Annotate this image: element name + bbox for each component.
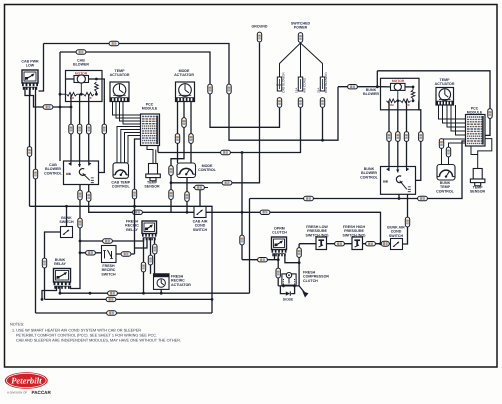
junction motor right xyxy=(95,78,98,81)
wire bunk power loop xyxy=(377,71,490,136)
rotary switch CAB BLOWER CONTROL xyxy=(64,161,99,185)
module PCC bunk xyxy=(466,115,486,147)
wire control pin to bunk relay xyxy=(71,185,81,289)
wire mode act pin1 to control xyxy=(177,102,179,164)
connector bunk temp a xyxy=(439,139,443,149)
connector after high press xyxy=(366,242,376,246)
connector on wire F mid xyxy=(133,210,143,214)
wire blower M2 to control xyxy=(88,94,90,161)
junction F3 to bus A xyxy=(321,139,324,142)
junction wire F bunk AC xyxy=(379,242,382,245)
FR relay pin wires xyxy=(143,238,145,293)
bunk blower out wires xyxy=(388,101,390,167)
wire bunk to FR relay coil xyxy=(80,238,144,241)
junction blower feed xyxy=(59,106,62,109)
svg-text:CAB TEMPCONTROL: CAB TEMPCONTROL xyxy=(111,181,130,189)
wire FR switch right xyxy=(116,253,135,255)
wire blower M1 to control xyxy=(79,94,81,161)
wire blower feed vertical xyxy=(59,52,61,161)
wire G bunk control xyxy=(250,141,466,199)
wire motor left feed xyxy=(66,78,74,80)
wire power bus B xyxy=(60,52,280,127)
wire fuse3 to bunk blower xyxy=(338,86,381,88)
connector bunk blower feed xyxy=(348,85,358,89)
fuse F2 air cond xyxy=(298,77,302,91)
actuator FRESH RECIRC xyxy=(154,274,170,290)
wire clutch bottom xyxy=(278,285,299,287)
connector on control out 1 xyxy=(78,190,82,200)
switch FRESH HIGH PRESSURE xyxy=(352,237,363,250)
svg-text:PACCAR: PACCAR xyxy=(32,390,52,395)
svg-text:CABBLOWER: CABBLOWER xyxy=(73,59,89,67)
wire blower LO to control xyxy=(70,94,72,161)
svg-text:CAB PWRLOW: CAB PWRLOW xyxy=(21,60,39,68)
wire relay pin to AC line xyxy=(29,87,31,206)
connector mode3 xyxy=(189,134,193,144)
actuator cab mode xyxy=(176,82,195,102)
wire to low press switch xyxy=(299,243,316,245)
connector switched power xyxy=(298,33,302,43)
svg-text:PCCMODULE: PCCMODULE xyxy=(142,103,158,111)
dial BUNK TEMP CONTROL xyxy=(437,165,455,181)
wire C power to DPRM xyxy=(241,153,243,260)
bunk blower motor symbol M2 xyxy=(391,83,406,90)
wire PCC to fresh-recirc line xyxy=(135,139,141,254)
relay DPRM CLUTCH xyxy=(272,237,287,250)
connector on power bus A xyxy=(109,41,119,45)
wire FR actuator bottom xyxy=(160,289,162,293)
svg-text:CAB AIRCONDSWITCH: CAB AIRCONDSWITCH xyxy=(193,220,208,232)
rotary switch BUNK BLOWER CONTROL xyxy=(381,167,416,195)
connector ground xyxy=(257,32,261,42)
svg-text:DPRMCLUTCH: DPRMCLUTCH xyxy=(272,227,287,235)
svg-text:DIODE: DIODE xyxy=(283,298,294,302)
actuator cab temp xyxy=(110,82,129,102)
fan-out wires to fuses xyxy=(280,43,301,77)
junction at LM resistor wire xyxy=(70,106,73,109)
svg-text:TEMPACTUATOR: TEMPACTUATOR xyxy=(435,78,455,86)
wire BBC to bunk AC switch xyxy=(403,194,408,244)
Peterbilt logo xyxy=(5,372,48,389)
wire AC switch to pill xyxy=(199,188,201,207)
switch CAB AIR COND xyxy=(194,207,206,218)
connector bunk blower 1 xyxy=(387,132,391,142)
svg-text:BUNKRELAY: BUNKRELAY xyxy=(54,258,66,266)
junction Y299 loop xyxy=(211,298,214,301)
relay FRESH RECIRC xyxy=(142,221,157,234)
PCC bunk pins to temp control xyxy=(442,139,466,165)
svg-text:FRESHRECIRCRELAY: FRESHRECIRCRELAY xyxy=(125,220,139,232)
connector bunk AC left xyxy=(381,241,389,246)
connector bunk switch wire xyxy=(42,258,46,268)
temp actuator pin wires to PCC xyxy=(113,102,141,116)
diode D1 xyxy=(286,291,291,295)
connector on power bus B xyxy=(76,50,86,54)
connector AC switch xyxy=(195,185,205,189)
svg-text:1M: 1M xyxy=(389,103,394,107)
connector under fuse F1 xyxy=(277,98,281,108)
DPRM pin wires xyxy=(274,254,276,260)
wire stub into box xyxy=(60,93,66,95)
PCC cab lower pin wires to temp control xyxy=(117,127,141,163)
connector pressure chain xyxy=(297,248,301,258)
resistor bunk MED xyxy=(401,99,411,103)
connector on M2 wire xyxy=(87,124,91,134)
connector on FR coil wire xyxy=(103,239,113,243)
connector on PCC power wire xyxy=(221,150,231,154)
svg-text:15A: 15A xyxy=(294,88,298,93)
module PCC cab xyxy=(141,114,160,146)
wire AC pill stub xyxy=(193,187,208,189)
wire pressure chain vertical xyxy=(298,244,300,286)
junction bunk switch xyxy=(65,205,68,208)
sensor bunk temp xyxy=(470,169,485,186)
PCC cab bottom pins xyxy=(147,146,153,164)
resistor cab blower MED xyxy=(84,92,95,96)
bunk relay pin wires xyxy=(42,286,57,300)
connector on wire G right xyxy=(418,196,428,200)
svg-text:MODECONTROL: MODECONTROL xyxy=(198,164,217,172)
connector on power bus A vertical xyxy=(227,84,231,94)
dial CAB TEMP CONTROL xyxy=(113,163,129,179)
wire bunk motor bottom xyxy=(397,91,399,101)
wire F blower-AC chain xyxy=(89,185,381,244)
connector on wire F right xyxy=(260,210,270,214)
wire E AC request xyxy=(30,206,213,313)
wire between resistors xyxy=(77,93,84,95)
fuse F1 cab blower xyxy=(277,77,281,91)
wire relay pin stub xyxy=(25,87,30,96)
junction AC request line xyxy=(133,205,136,208)
wire BBC pin to wire G xyxy=(398,194,400,198)
wire bottom Y293 xyxy=(60,292,250,294)
wire power bus A xyxy=(44,44,339,141)
wire relay pin long left vertical xyxy=(35,87,37,313)
connector on Y313 xyxy=(107,311,117,315)
svg-text:NOTES:: NOTES: xyxy=(10,323,24,327)
wire fuse F3 down xyxy=(322,108,324,140)
junction resistor right xyxy=(95,93,98,96)
wire relay pin to power bus xyxy=(39,44,44,92)
wire ground to module area xyxy=(171,43,260,183)
wire to bunk AC switch xyxy=(381,243,391,245)
connector FR switch right xyxy=(121,252,131,256)
svg-text:TEMPSENSOR: TEMPSENSOR xyxy=(470,186,486,194)
junction feed stub xyxy=(59,93,62,96)
svg-text:BUNK AIRCONDSWITCH: BUNK AIRCONDSWITCH xyxy=(387,226,405,238)
junction PCC line xyxy=(133,205,136,208)
wire to FR switch xyxy=(80,252,102,254)
junction FR relay on Y293 xyxy=(142,292,145,295)
dial MODE CONTROL xyxy=(177,163,196,178)
connector on FR switch wire xyxy=(86,251,96,255)
svg-text:BUNKTEMPCONTROL: BUNKTEMPCONTROL xyxy=(436,181,455,193)
svg-text:FRESHRECIRCSWITCH: FRESHRECIRCSWITCH xyxy=(101,264,116,276)
resistor bunk LO xyxy=(387,99,397,103)
wire motor bottom xyxy=(80,83,82,95)
wire bunk switch top xyxy=(66,206,68,226)
connector mode1 xyxy=(175,134,179,144)
wire relay pin step xyxy=(30,87,34,99)
wire C to DPRM pin xyxy=(242,259,278,261)
bunk blower motor box xyxy=(381,78,420,110)
svg-text:PCCMODULE: PCCMODULE xyxy=(467,107,483,115)
svg-text:1. USE W/ SMART HEATER AIR CON: 1. USE W/ SMART HEATER AIR COND SYSTEM W… xyxy=(12,329,141,333)
wire motor right xyxy=(89,78,97,80)
connector on left wire A xyxy=(27,147,31,157)
connector BBC out xyxy=(405,217,409,227)
junction ground wire xyxy=(170,181,173,184)
connector on Y293 xyxy=(108,291,118,295)
connector on power bus B vertical xyxy=(208,84,212,94)
wire bunk motor right xyxy=(405,86,413,88)
wire bottom Y299 xyxy=(45,298,213,300)
cab blower motor box xyxy=(66,71,103,102)
svg-text:25A: 25A xyxy=(316,88,320,93)
junction motor return xyxy=(80,93,83,96)
connector bunk temp b xyxy=(446,147,450,157)
connector on wire G xyxy=(304,196,314,200)
connector on ground wire xyxy=(222,181,232,185)
connector FR act b xyxy=(153,244,157,254)
wire resistor to row xyxy=(95,92,97,95)
wire bottom Y313 xyxy=(36,312,213,314)
connector FR relay out xyxy=(141,262,145,272)
actuator bunk temp xyxy=(436,88,454,106)
connector under fuse F3 xyxy=(320,98,324,108)
resistor bunk blower dropping xyxy=(411,90,415,99)
connector on left wire B xyxy=(33,169,37,179)
connector on PCC-FR wire xyxy=(132,189,136,199)
svg-text:PETERBILT COMFORT CONTROL (PCC: PETERBILT COMFORT CONTROL (PCC). SEE SHE… xyxy=(16,334,157,338)
svg-text:MODEACTUATOR: MODEACTUATOR xyxy=(174,69,194,77)
svg-text:CAB AND SLEEPER ARE INDEPENDEN: CAB AND SLEEPER ARE INDEPENDENT MODULES,… xyxy=(16,339,181,343)
svg-text:BLW BLOWER: BLW BLOWER xyxy=(324,71,328,93)
connector between pressure switches xyxy=(335,242,345,246)
svg-text:CAB BLOWER: CAB BLOWER xyxy=(282,72,286,93)
wire mode control bottom pin xyxy=(186,178,188,213)
connector on LO wire xyxy=(69,124,73,134)
wire high press to node xyxy=(363,243,381,245)
resistor cab blower dropping xyxy=(95,82,99,92)
junction pressure chain xyxy=(298,261,301,264)
wire FR relay to actuator b xyxy=(154,238,156,274)
wire FR relay stub xyxy=(135,238,148,248)
svg-text:TEMPSENSOR: TEMPSENSOR xyxy=(144,181,160,189)
connector on control out 1b xyxy=(78,218,82,228)
switch BUNK xyxy=(61,227,73,238)
wire FR relay to actuator a xyxy=(150,238,152,274)
connector FR act a xyxy=(148,255,152,265)
connector on HI wire xyxy=(102,124,106,134)
junction C top xyxy=(241,151,244,154)
wire blower HI to control xyxy=(96,79,104,173)
wires PCC to bunk sensor xyxy=(478,139,492,169)
wire mode act pin3 to control xyxy=(190,102,192,164)
svg-text:BUNKBLOWERCONTROL: BUNKBLOWERCONTROL xyxy=(360,167,379,179)
connector mode2c xyxy=(169,190,173,200)
resistor cab blower LO xyxy=(67,92,78,96)
connector mode2 xyxy=(182,118,186,128)
connector mode2b xyxy=(169,166,173,176)
wire fuse2 to PCC cab xyxy=(158,108,301,153)
switch BUNK AIR COND xyxy=(391,239,403,250)
svg-text:GROUND: GROUND xyxy=(252,25,268,29)
wire mode act pin2 down xyxy=(171,102,184,213)
wire G left vertical xyxy=(249,199,251,294)
connector mode control out xyxy=(185,192,189,202)
cab blower motor symbol M1 xyxy=(74,75,89,83)
svg-text:AIR COND: AIR COND xyxy=(303,77,307,93)
svg-text:BUNKBLOWER: BUNKBLOWER xyxy=(363,88,379,96)
relay CAB PWR LOW xyxy=(22,70,38,83)
junction on Y293 xyxy=(89,292,92,295)
bunk actuator pin wires to PCC xyxy=(439,105,466,119)
svg-text:CABBLOWERCONTROL: CABBLOWERCONTROL xyxy=(44,163,63,175)
svg-text:FRESHCOMPRESSORCLUTCH: FRESHCOMPRESSORCLUTCH xyxy=(303,271,329,283)
junction on wire F xyxy=(186,211,189,214)
connector bunk blower 4 xyxy=(419,132,423,142)
svg-text:MOTOR: MOTOR xyxy=(392,79,405,83)
wire bunk power drop xyxy=(376,71,378,87)
svg-text:TEMPACTUATOR: TEMPACTUATOR xyxy=(110,69,130,77)
diode loop xyxy=(280,286,285,294)
connector on DPRM wire xyxy=(258,258,268,262)
wire bunk switch left down xyxy=(45,232,61,299)
wire relay to blower resistor xyxy=(34,99,72,107)
svg-text:FRESH HIGHPRESSURESWITCH (NO): FRESH HIGHPRESSURESWITCH (NO) xyxy=(343,225,367,237)
connector under fuse F2 xyxy=(298,98,302,108)
connector on M1 wire xyxy=(77,124,81,134)
wire bunk motor feed xyxy=(381,86,391,88)
svg-text:Peterbilt: Peterbilt xyxy=(11,375,42,385)
connector on wire C xyxy=(240,235,244,245)
ground arrow xyxy=(299,286,304,293)
connector bunk blower 3 xyxy=(404,132,408,142)
compressor clutch box xyxy=(282,273,296,286)
connector bunk blower 2 xyxy=(396,132,400,142)
wire between pressure switches xyxy=(327,243,353,245)
fuse F3 bunk blower xyxy=(320,77,324,91)
connector on relay-blower wire xyxy=(43,105,53,109)
connector on wire F xyxy=(87,192,91,202)
svg-text:SWITCHEDPOWER: SWITCHEDPOWER xyxy=(291,22,311,30)
relay BUNK xyxy=(54,269,71,283)
switch FRESH RECIRC xyxy=(102,246,117,263)
connector DPRM out xyxy=(276,268,280,278)
svg-text:FRESH LOWPRESSURESWITCH (NO): FRESH LOWPRESSURESWITCH (NO) xyxy=(306,225,330,237)
sensor cab temp xyxy=(146,164,161,181)
connector bunk power right xyxy=(488,109,492,119)
switch FRESH LOW PRESSURE xyxy=(316,237,327,250)
svg-text:FRESHRECIRCACTUATOR: FRESHRECIRCACTUATOR xyxy=(171,275,191,287)
junction C wire F xyxy=(241,211,244,214)
connector on Y299 xyxy=(106,297,116,301)
svg-text:A DIVISION OF: A DIVISION OF xyxy=(7,391,27,395)
